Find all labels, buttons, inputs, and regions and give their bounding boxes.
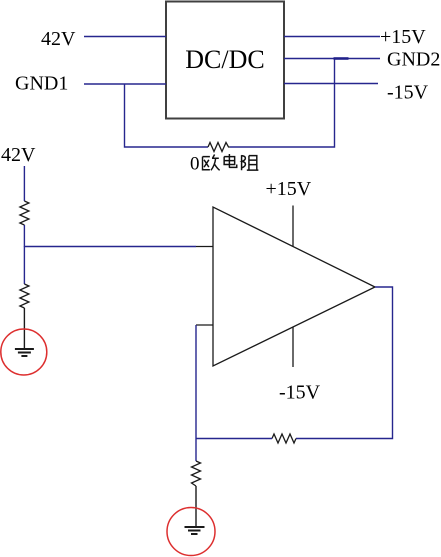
wire R2 to ground [23, 308, 25, 349]
glyph 欧 [203, 155, 220, 171]
DC/DC converter box U1 [166, 2, 284, 119]
svg-text:-15V: -15V [387, 82, 429, 104]
svg-text:42V: 42V [41, 28, 76, 50]
wire +15V output [284, 36, 380, 38]
ground G1 [15, 349, 34, 356]
resistor R1 (vertical) [20, 201, 29, 225]
svg-text:GND1: GND1 [15, 73, 68, 95]
wire GND2 [284, 58, 380, 60]
wire 42V input [84, 36, 166, 38]
wire GND2 branch down [230, 59, 335, 148]
wire R3 to ground [195, 486, 197, 527]
red circle around ground G1 [1, 329, 47, 375]
label 0欧电阻 [190, 154, 258, 175]
wire R1 to node A [23, 225, 25, 247]
glyph 电 [224, 154, 237, 167]
wire GND1 [84, 83, 166, 85]
op-amp U2 triangle [213, 207, 375, 366]
wire op-amp output [296, 287, 393, 439]
svg-text:+15V: +15V [380, 26, 426, 48]
svg-text:42V: 42V [1, 144, 36, 166]
svg-text:+15V: +15V [266, 178, 312, 200]
wire -15V output [284, 83, 378, 85]
svg-text:-15V: -15V [279, 382, 321, 404]
wire GND1 branch down [125, 84, 209, 147]
junction segment at GND2 branch [334, 57, 349, 60]
wire feedback to node B [196, 438, 272, 440]
resistor R0 (0 ohm) [208, 143, 230, 152]
op-amp -input stub [196, 324, 213, 326]
wire from 42V down [23, 166, 25, 201]
-15V power pin [292, 327, 294, 367]
glyph 阻 [242, 155, 259, 170]
resistor R3 (vertical) [192, 461, 201, 486]
red circle around ground G2 [167, 508, 215, 556]
svg-text:GND2: GND2 [387, 49, 440, 71]
node A wire to op-amp +input [24, 246, 196, 248]
wire node A down [23, 246, 25, 284]
svg-text:0: 0 [190, 154, 200, 175]
op-amp +input stub [196, 246, 213, 248]
wire -input down to node B and below [195, 325, 197, 461]
ground G2 [185, 527, 205, 534]
resistor R2 (vertical) [20, 284, 29, 308]
svg-text:DC/DC: DC/DC [185, 45, 264, 74]
+15V power pin [292, 206, 294, 247]
resistor R4 (feedback, horizontal) [272, 434, 296, 443]
